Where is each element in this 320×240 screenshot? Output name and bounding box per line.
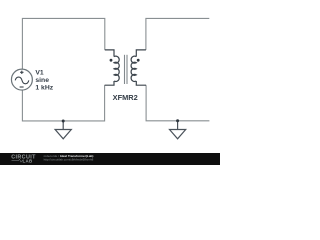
svg-text:LAB: LAB <box>23 158 33 163</box>
svg-text:V1: V1 <box>35 69 44 76</box>
svg-text:http://circuitlab.com/c8rkfmde: http://circuitlab.com/c8rkfmde58xmh8 <box>44 158 94 162</box>
svg-text:XFMR2: XFMR2 <box>113 93 138 102</box>
svg-text:1 kHz: 1 kHz <box>35 84 53 91</box>
svg-text:sine: sine <box>35 77 49 84</box>
